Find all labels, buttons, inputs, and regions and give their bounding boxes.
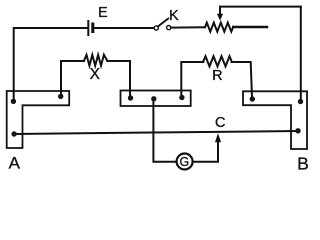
binding post: middle strip center <box>151 96 156 101</box>
resistor R right wire down to strip B <box>232 62 252 97</box>
battery E short thick plate <box>91 24 94 32</box>
resistor R left riser wire <box>181 62 203 97</box>
svg-text:A: A <box>9 154 21 173</box>
terminal strip middle <box>121 91 191 107</box>
svg-text:R: R <box>212 68 222 84</box>
resistor X right wire down to middle strip <box>107 61 130 97</box>
binding post: strip A bottom <box>11 131 16 136</box>
svg-text:X: X <box>90 66 101 83</box>
terminal strip B (mirrored L copper strip) <box>243 91 307 149</box>
rheostat zigzag element <box>205 23 233 32</box>
wire: galvanometer branch from middle post down <box>153 99 176 162</box>
svg-text:C: C <box>215 115 225 131</box>
resistor X left riser wire <box>61 61 84 96</box>
binding post: strip B lower <box>295 128 300 133</box>
galvanometer G body <box>177 154 193 170</box>
wire: battery to switch <box>95 27 154 29</box>
resistor X zigzag <box>84 55 107 66</box>
battery E long plate <box>87 21 89 35</box>
rheostat right stub terminal <box>233 26 267 28</box>
svg-text:E: E <box>98 5 108 21</box>
jockey arrowhead at C <box>215 133 221 142</box>
terminal strip A (L-shaped copper strip) <box>7 91 69 148</box>
wire: top-left horizontal (battery to left corner) <box>14 28 87 100</box>
binding post: strip A top-left <box>11 99 16 104</box>
switch K left contact <box>154 26 158 30</box>
switch K lever <box>158 19 168 27</box>
binding post: middle strip left <box>128 95 133 100</box>
binding post: strip A top-right <box>58 94 63 99</box>
svg-text:K: K <box>169 8 179 24</box>
binding post: strip B top-right <box>298 99 303 104</box>
svg-text:G: G <box>180 155 190 169</box>
rheostat wiper arrow stem <box>219 7 221 15</box>
wire: switch to rheostat <box>171 26 205 28</box>
wire: right vertical down to strip B <box>300 7 302 100</box>
rheostat wiper arrowhead <box>217 14 223 21</box>
bridge wire from A to B <box>14 131 298 134</box>
switch K right contact <box>167 26 171 30</box>
binding post: strip B top-left <box>250 96 255 101</box>
resistor R zigzag <box>203 56 231 66</box>
binding post: middle strip right <box>179 95 184 100</box>
wire: wiper to top-right corner <box>220 6 301 8</box>
wire: galvanometer to jockey riser <box>193 142 218 162</box>
svg-text:B: B <box>297 154 309 174</box>
